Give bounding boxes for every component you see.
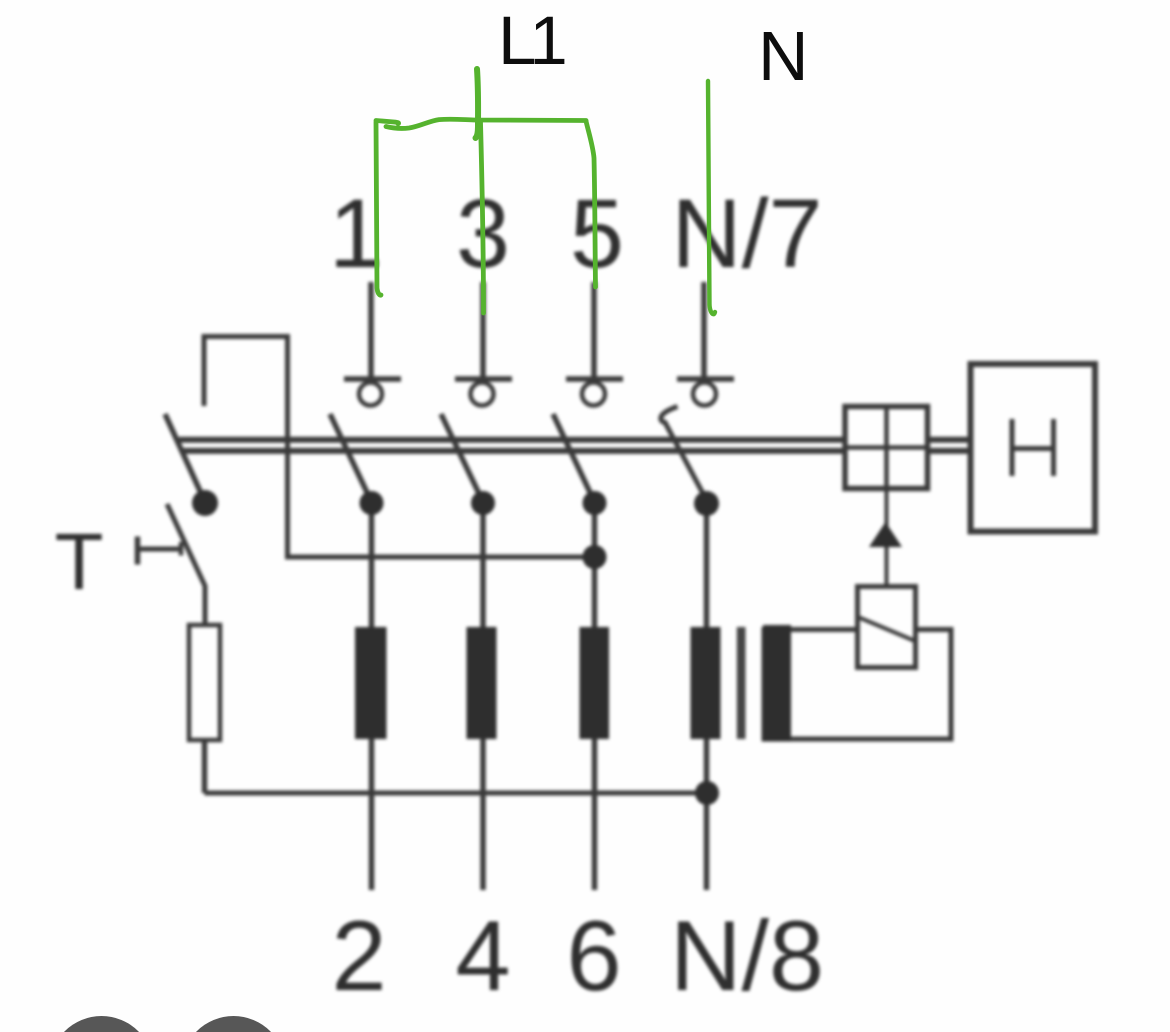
wire green stub left [376, 121, 399, 124]
node pole N [694, 491, 719, 516]
switch main contact [165, 414, 205, 502]
wire green vertical N [708, 81, 715, 314]
winding pole 1 [355, 627, 387, 739]
svg-text:L1: L1 [498, 2, 564, 79]
wire pole 5 vertical [592, 502, 598, 890]
wire green vertical L1-5 [586, 121, 596, 287]
node bottom N [695, 781, 719, 805]
node pole 1 [360, 491, 384, 515]
test button T [138, 537, 182, 565]
terminal 3 [455, 379, 512, 406]
switch pole 5 [553, 414, 595, 502]
switch pole 3 [441, 414, 483, 502]
wire green vertical L1-1 [376, 122, 381, 295]
terminal 5 [566, 379, 623, 406]
wire green stub above L1 [476, 69, 479, 138]
node pole 3 [471, 491, 495, 515]
bus lower line [183, 448, 846, 454]
avatar circle left [50, 1016, 154, 1032]
core line [737, 627, 746, 739]
wire green horizontal [386, 119, 586, 128]
bus to H lower [926, 448, 972, 454]
bus to H upper [926, 437, 972, 443]
svg-text:N: N [758, 17, 809, 95]
avatar circle right [182, 1016, 286, 1032]
wire trip line [885, 490, 889, 586]
wire green vertical L1-3 [481, 122, 484, 313]
wire pole 3 vertical [480, 502, 486, 890]
wire top lead 3 [480, 282, 486, 378]
indicator box H [971, 364, 1096, 532]
bracket linkage [204, 337, 593, 558]
wire bottom return [205, 791, 709, 796]
node main switch [192, 490, 218, 516]
wire resistor bottom [202, 740, 208, 793]
winding pole 3 [467, 627, 497, 739]
relay K [858, 587, 916, 668]
winding pole 5 [580, 627, 610, 739]
wire pole N vertical [704, 502, 710, 890]
test switch contact [167, 504, 205, 627]
arrow to relay [869, 522, 902, 547]
wire top lead N/7 [701, 282, 707, 378]
node bracket pole5 [583, 545, 607, 569]
wire pole 1 vertical [369, 502, 375, 890]
wire top lead 1 [368, 282, 374, 378]
resistor R [189, 625, 220, 740]
terminal N/7 [677, 379, 734, 406]
winding pole N [691, 627, 721, 739]
mechanism box [845, 407, 928, 489]
coil secondary box [763, 625, 951, 742]
terminal 1 [344, 379, 401, 406]
switch pole 1 [330, 414, 372, 502]
switch pole N hooked [661, 407, 708, 503]
wire top lead 5 [591, 282, 597, 378]
bus upper line [179, 437, 846, 443]
node pole 5 [583, 491, 607, 515]
